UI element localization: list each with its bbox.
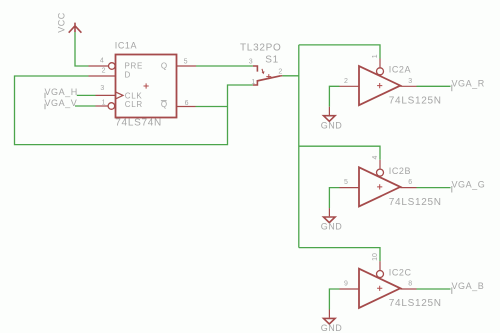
svg-text:10: 10 — [372, 253, 379, 261]
node VGA_H label — [45, 87, 78, 98]
pin 2 D — [89, 75, 116, 77]
output pin 3 — [400, 85, 416, 87]
svg-text:2: 2 — [102, 68, 106, 75]
wire IC2A output — [417, 85, 451, 87]
ground (IC2A) — [321, 107, 343, 131]
enable pin — [379, 261, 381, 270]
svg-text:74LS125N: 74LS125N — [389, 298, 442, 309]
svg-text:1: 1 — [372, 54, 379, 58]
wire Q-bar to D net — [196, 106, 228, 108]
enable pin — [379, 59, 381, 68]
ground (IC2B) — [321, 208, 343, 232]
svg-text:6: 6 — [185, 100, 189, 107]
svg-text:GND: GND — [321, 222, 343, 232]
svg-text:VGA_B: VGA_B — [452, 281, 485, 291]
node VGA_R label — [452, 78, 485, 91]
svg-text:VGA_G: VGA_G — [452, 180, 486, 190]
svg-text:CLR: CLR — [125, 100, 143, 109]
node VGA_V label — [45, 98, 78, 109]
wire IC2A input + gnd drop — [329, 86, 339, 107]
buffer IC2B 74LS125N — [340, 156, 442, 208]
svg-text:IC2C: IC2C — [389, 267, 412, 277]
svg-text:IC2B: IC2B — [389, 166, 411, 176]
input pin 2 — [340, 85, 360, 87]
origin cross — [144, 83, 149, 88]
pin 1 CLR — [96, 105, 108, 107]
wire Q to switch pin 3 — [196, 65, 253, 67]
svg-text:Q: Q — [161, 100, 168, 109]
wire enable bus vertical — [298, 45, 300, 248]
pin 3 CLK — [96, 94, 116, 96]
svg-text:VGA_V: VGA_V — [45, 98, 78, 108]
wire switch pin2 to enable bus — [282, 75, 298, 77]
wire IC2B output — [417, 187, 451, 189]
enable pin — [379, 160, 381, 169]
origin cross — [266, 74, 271, 79]
wire enable branch A — [299, 45, 380, 59]
supply VCC — [56, 12, 81, 33]
svg-text:GND: GND — [321, 323, 343, 333]
svg-text:6: 6 — [408, 179, 412, 186]
ground (IC2C) — [321, 310, 343, 333]
svg-text:74LS74N: 74LS74N — [115, 118, 162, 129]
output pin 6 — [400, 187, 416, 189]
buffer IC2A 74LS125N — [340, 54, 442, 106]
wire D net loop (left) — [15, 76, 253, 145]
svg-text:IC2A: IC2A — [389, 65, 411, 75]
pin 2 stub — [281, 75, 283, 77]
wire enable branch B — [299, 146, 380, 160]
svg-text:4: 4 — [100, 57, 104, 64]
node VGA_B label — [452, 281, 485, 294]
node VGA_G label — [452, 180, 486, 193]
triangle — [359, 167, 400, 206]
wire IC2C output — [417, 288, 451, 290]
origin cross — [377, 286, 382, 291]
wire VGA_V — [75, 105, 96, 107]
wire VCC to PRE pin — [75, 32, 89, 66]
svg-text:3: 3 — [100, 85, 104, 92]
svg-text:1: 1 — [251, 79, 255, 86]
svg-text:2: 2 — [344, 78, 348, 85]
svg-text:8: 8 — [408, 281, 412, 288]
origin cross — [377, 184, 382, 189]
svg-text:TL32PO: TL32PO — [240, 42, 281, 53]
pin 6 Q-bar — [177, 106, 196, 108]
body outline — [116, 55, 177, 118]
wire IC2C input + gnd drop — [329, 289, 339, 310]
svg-text:5: 5 — [344, 179, 348, 186]
actuator arrow — [262, 69, 263, 73]
triangle — [359, 66, 400, 105]
svg-text:IC1A: IC1A — [115, 41, 137, 51]
pin 5 Q — [177, 65, 197, 67]
pin 1 bend — [253, 80, 258, 85]
origin cross — [377, 83, 382, 88]
wire enable branch C — [299, 248, 380, 262]
svg-text:74LS125N: 74LS125N — [389, 197, 442, 208]
svg-text:PRE: PRE — [125, 61, 144, 70]
svg-text:Q: Q — [161, 61, 168, 70]
svg-text:VCC: VCC — [56, 12, 66, 33]
svg-text:4: 4 — [372, 156, 379, 160]
svg-text:VGA_R: VGA_R — [452, 78, 485, 88]
svg-text:3: 3 — [249, 59, 253, 66]
svg-text:S1: S1 — [265, 54, 279, 65]
svg-text:D: D — [125, 71, 131, 80]
lever — [257, 76, 281, 81]
input pin 9 — [340, 288, 360, 290]
wire VGA_H — [77, 94, 96, 96]
svg-text:9: 9 — [344, 281, 348, 288]
wire IC2B input + gnd drop — [329, 188, 339, 209]
triangle — [359, 269, 400, 308]
output pin 8 — [400, 288, 416, 290]
svg-text:GND: GND — [321, 120, 343, 130]
svg-text:1: 1 — [102, 100, 106, 107]
switch S1 TL32PO — [240, 42, 282, 86]
input pin 5 — [340, 187, 360, 189]
svg-text:5: 5 — [184, 59, 188, 66]
flip-flop IC1A 74LS74N — [89, 41, 197, 129]
buffer IC2C 74LS125N — [340, 253, 442, 309]
svg-text:3: 3 — [408, 78, 412, 85]
svg-text:74LS125N: 74LS125N — [389, 96, 442, 107]
pin 3 bend — [253, 66, 258, 72]
pin 4 PRE — [89, 65, 109, 67]
svg-text:2: 2 — [278, 69, 282, 76]
svg-text:VGA_H: VGA_H — [45, 87, 78, 97]
